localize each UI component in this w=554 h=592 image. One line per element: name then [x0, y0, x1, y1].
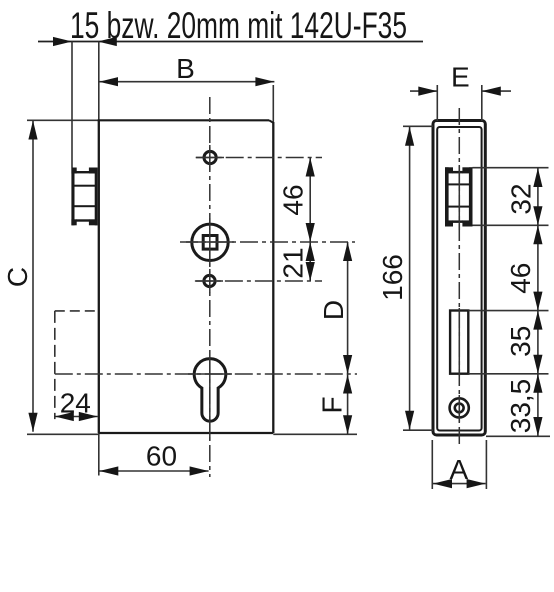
- vertical centerline (side view): [458, 108, 460, 447]
- dimension 46 (front view): [278, 158, 315, 243]
- centerline follower: [180, 241, 355, 243]
- svg-text:C: C: [2, 267, 33, 287]
- svg-text:60: 60: [146, 441, 177, 472]
- latch bolt (side view): [445, 167, 473, 226]
- centerline top fixing hole: [196, 157, 322, 159]
- svg-text:21: 21: [278, 247, 309, 278]
- svg-text:15 bzw. 20mm mit 142U-F35: 15 bzw. 20mm mit 142U-F35: [70, 5, 407, 46]
- svg-text:A: A: [449, 454, 468, 485]
- dimension A: [432, 440, 486, 489]
- latch bolt (front view): [71, 168, 97, 226]
- dimension C: [2, 121, 38, 432]
- dimension 46 (side view): [505, 225, 542, 310]
- dimension 33,5: [505, 374, 542, 436]
- svg-text:33,5: 33,5: [505, 379, 536, 434]
- svg-text:35: 35: [505, 326, 536, 357]
- dimension 35: [505, 311, 542, 374]
- svg-text:D: D: [318, 300, 349, 320]
- svg-text:F: F: [317, 396, 348, 413]
- svg-text:46: 46: [278, 184, 309, 215]
- euro profile cylinder hole (front view): [194, 359, 226, 421]
- dimension B: [99, 53, 274, 86]
- centerline lower fixing hole: [195, 280, 322, 282]
- svg-text:32: 32: [506, 183, 537, 214]
- svg-text:166: 166: [377, 254, 408, 301]
- dimension F: [317, 374, 353, 434]
- vertical centerline through holes (front view): [209, 97, 211, 477]
- cylinder slot cutout (side view): [450, 311, 468, 374]
- lock case right edge (front view): [272, 85, 274, 433]
- dimension 21 (front view): [278, 242, 315, 281]
- lock case bottom edge (front view): [27, 433, 357, 434]
- dimension 60: [99, 441, 208, 476]
- lock case body outline (side view): [437, 127, 481, 431]
- svg-text:46: 46: [505, 263, 536, 294]
- dimension D: [318, 242, 352, 374]
- dimension 166: [377, 126, 433, 430]
- centerline cylinder: [55, 373, 357, 375]
- lower fixing hole (front view): [204, 275, 215, 286]
- svg-text:B: B: [176, 53, 195, 84]
- follower square spindle hole (front view): [192, 224, 228, 260]
- svg-text:24: 24: [60, 388, 91, 419]
- lock case left edge / faceplate line (front view): [98, 42, 100, 476]
- extension line latch tip: [71, 42, 73, 168]
- dimension 32: [506, 168, 543, 225]
- extension lines right side dims: [468, 168, 550, 437]
- faceplate outline (side view): [433, 121, 485, 436]
- dimension 24: [55, 388, 98, 421]
- dimension E: [410, 62, 511, 121]
- svg-text:E: E: [451, 62, 470, 93]
- dimension 15 line with underline of note: [38, 37, 423, 46]
- lock case top edge (front view): [27, 120, 273, 123]
- dashed backset construction line (24): [55, 311, 97, 419]
- screw hole (side view): [450, 398, 469, 417]
- top fixing hole (front view): [204, 151, 216, 163]
